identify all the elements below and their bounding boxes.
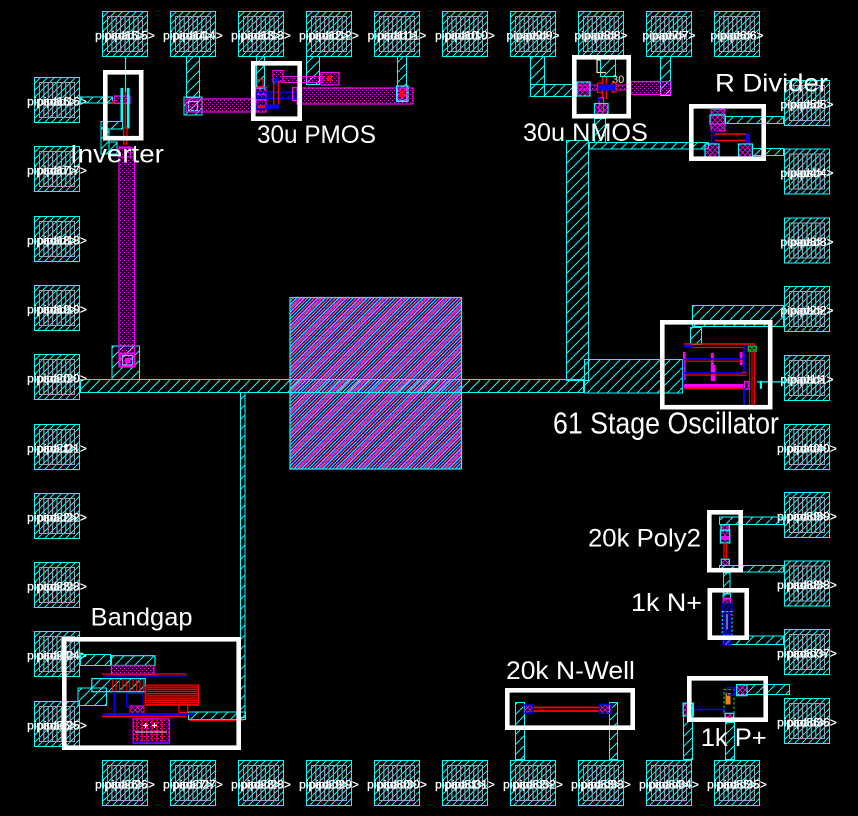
label 20k Poly2 xyxy=(588,525,701,553)
wire 20k Poly2 top to pipad39 xyxy=(720,517,784,525)
svg-text:pipad39>: pipad39> xyxy=(787,510,837,524)
label 1k N+ xyxy=(631,588,702,617)
wire inverter input line from pipad15 xyxy=(125,56,127,92)
svg-text:1k P+: 1k P+ xyxy=(701,724,767,752)
wire vertical to bandgap xyxy=(241,393,246,718)
svg-text:pipad18>: pipad18> xyxy=(37,234,87,248)
resistor 20k N-Well interior xyxy=(524,704,612,713)
svg-text:30: 30 xyxy=(612,74,624,86)
svg-text:pipad26>: pipad26> xyxy=(105,778,155,792)
via contact under pipad14 xyxy=(184,97,202,115)
svg-text:pipad23>: pipad23> xyxy=(37,580,87,594)
pad pipad17 (left column) xyxy=(27,147,87,192)
label 30u PMOS xyxy=(257,122,376,149)
pad pipad21 (left column) xyxy=(27,425,87,470)
pad pipad30 (bottom row) xyxy=(367,761,427,806)
svg-text:pipad29>: pipad29> xyxy=(309,778,359,792)
wire oscillator top to pipad2 xyxy=(693,306,784,327)
svg-text:pipad6>: pipad6> xyxy=(720,29,763,43)
svg-text:20k N-Well: 20k N-Well xyxy=(506,658,635,685)
svg-text:pipad35>: pipad35> xyxy=(717,778,767,792)
svg-text:pipad38>: pipad38> xyxy=(787,578,837,592)
svg-text:pipad21>: pipad21> xyxy=(37,442,87,456)
svg-text:pipad9>: pipad9> xyxy=(516,29,559,43)
svg-text:pipad37>: pipad37> xyxy=(787,647,837,661)
svg-text:pipad4>: pipad4> xyxy=(790,166,833,180)
wire 20k Poly2 to 1k N+ vertical xyxy=(724,573,731,594)
svg-text:1k N+: 1k N+ xyxy=(631,588,702,617)
svg-text:pipad7>: pipad7> xyxy=(652,29,695,43)
pad pipad12 (top row) xyxy=(299,12,359,57)
pad pipad35 (bottom row) xyxy=(707,761,767,806)
label 30u NMOS xyxy=(523,119,648,147)
svg-text:pipad13>: pipad13> xyxy=(241,29,291,43)
wire pipad12 vertical xyxy=(307,57,320,85)
wire main horizontal bus from pipad20 to oscillator xyxy=(81,380,584,393)
wire magenta wide PMOS output east xyxy=(297,88,413,104)
wire pipad13 vertical into PMOS xyxy=(257,57,265,89)
label R Divider xyxy=(715,69,828,98)
wire 1k P+ bottom vertical to pipad35 xyxy=(726,723,735,760)
pad pipad28 (bottom row) xyxy=(231,761,291,806)
svg-text:20k Poly2: 20k Poly2 xyxy=(588,525,701,553)
wire pipad14 vertical xyxy=(187,57,200,98)
bandgap interior xyxy=(92,656,199,743)
resistor box 1k P+ xyxy=(689,678,765,719)
pmos box 30u PMOS xyxy=(253,63,299,118)
wire R Divider bottom to pipad4 xyxy=(753,149,784,156)
svg-text:pipad30>: pipad30> xyxy=(377,778,427,792)
oscillator box 61 Stage xyxy=(662,322,770,407)
svg-text:pipad16>: pipad16> xyxy=(37,95,87,109)
wire R Divider top to pipad5 xyxy=(726,117,784,124)
svg-text:pipad8>: pipad8> xyxy=(584,29,627,43)
label 1k P+ xyxy=(701,724,767,752)
wire wide block into oscillator xyxy=(585,360,683,394)
svg-text:pipad5>: pipad5> xyxy=(790,98,833,112)
resistor box 20k Poly2 xyxy=(709,512,740,570)
svg-text:pipad24>: pipad24> xyxy=(37,649,87,663)
resistor divider interior xyxy=(705,110,753,158)
wire 1k N+ to pipad37 xyxy=(724,636,784,645)
pad pipad36 (right column) xyxy=(777,699,837,744)
wire red trace under bandgap output xyxy=(189,720,243,722)
svg-text:pipad1>: pipad1> xyxy=(790,373,833,387)
svg-text:pipad27>: pipad27> xyxy=(173,778,223,792)
pad pipad13 (top row) xyxy=(231,12,291,57)
svg-text:pipad14>: pipad14> xyxy=(173,29,223,43)
pad pipad32 (bottom row) xyxy=(503,761,563,806)
oscillator U2 interior xyxy=(683,344,790,405)
pad pipad37 (right column) xyxy=(777,630,837,675)
wire magenta pipad14 to PMOS xyxy=(186,99,256,112)
svg-text:pipad22>: pipad22> xyxy=(37,511,87,525)
svg-text:30u NMOS: 30u NMOS xyxy=(523,119,648,147)
label Inverter xyxy=(70,140,164,168)
pad pipad2 (right column) xyxy=(780,287,833,332)
via contact under pipad12 xyxy=(321,73,339,86)
wire pipad25 to bandgap block xyxy=(78,688,107,706)
pad pipad27 (bottom row) xyxy=(163,761,223,806)
svg-text:pipad20>: pipad20> xyxy=(37,372,87,386)
node center metal square xyxy=(290,298,462,470)
wire magenta thin PMOS to pipad12 contact xyxy=(283,77,323,83)
pad pipad7 (top row) xyxy=(642,12,695,57)
svg-text:pipad36>: pipad36> xyxy=(787,716,837,730)
wire pipad7 vertical xyxy=(661,57,671,96)
pad pipad15 (top row) xyxy=(95,12,155,57)
wire long vertical metal2 (NMOS to bus) xyxy=(567,141,589,381)
inverter box U-INV xyxy=(105,72,141,138)
resistor 20k Poly2 interior xyxy=(720,525,729,566)
svg-text:pipad32>: pipad32> xyxy=(513,778,563,792)
wire pipad11 vertical xyxy=(398,57,407,101)
resistor box 20k N-Well xyxy=(507,690,632,727)
pad pipad38 (right column) xyxy=(777,561,837,606)
wire bandgap output east xyxy=(189,712,246,720)
svg-text:pipad3>: pipad3> xyxy=(790,235,833,249)
via contact under pipad11 xyxy=(397,86,409,102)
wire 1k P+ left vertical to pipad34 xyxy=(684,704,693,760)
svg-text:pipad40>: pipad40> xyxy=(787,442,837,456)
svg-text:pipad2>: pipad2> xyxy=(790,304,833,318)
pad pipad16 (left column) xyxy=(27,78,87,123)
pad pipad22 (left column) xyxy=(27,494,87,539)
pad pipad23 (left column) xyxy=(27,563,87,608)
wire 20k Poly2 bottom to pipad38 xyxy=(720,566,784,573)
wire 20k N-Well right vertical to pipad33 xyxy=(610,703,618,760)
svg-text:R Divider: R Divider xyxy=(715,69,828,98)
pad pipad19 (left column) xyxy=(27,286,87,331)
wire 20k N-Well left vertical to pipad32 xyxy=(516,703,525,760)
pad pipad34 (bottom row) xyxy=(639,761,699,806)
svg-text:pipad28>: pipad28> xyxy=(241,778,291,792)
pad pipad14 (top row) xyxy=(163,12,223,57)
wire magenta NMOS output thin xyxy=(577,85,631,90)
pad pipad18 (left column) xyxy=(27,217,87,262)
wire 1k P+ to pipad36 xyxy=(737,685,790,695)
pad pipad24 (left column) xyxy=(27,632,87,677)
wire NMOS bottom vertical xyxy=(595,119,606,143)
svg-text:pipad15>: pipad15> xyxy=(105,29,155,43)
wire magenta vertical inverter output xyxy=(119,148,135,367)
wire pipad8 vertical into NMOS xyxy=(601,57,616,77)
pad pipad8 (top row) xyxy=(574,12,627,57)
svg-text:pipad34>: pipad34> xyxy=(649,778,699,792)
wire pipad24 to bandgap xyxy=(81,655,111,666)
pad pipad29 (bottom row) xyxy=(299,761,359,806)
resistor box R Divider xyxy=(691,106,763,158)
svg-text:61 Stage Oscillator: 61 Stage Oscillator xyxy=(553,407,779,441)
wire magenta NMOS output wide xyxy=(631,82,671,95)
svg-text:pipad31>: pipad31> xyxy=(445,778,495,792)
pad pipad20 (left column) xyxy=(27,355,87,400)
nmos box 30u NMOS xyxy=(574,57,628,116)
pad pipad1 (right column) xyxy=(780,356,833,401)
pad pipad26 (bottom row) xyxy=(95,761,155,806)
pmos Q1 interior xyxy=(256,71,298,113)
svg-text:pipad11>: pipad11> xyxy=(378,29,427,43)
svg-text:30u PMOS: 30u PMOS xyxy=(257,122,376,149)
pad pipad5 (right column) xyxy=(780,81,833,126)
resistor 1k P+ interior xyxy=(683,685,747,719)
resistor 1k N+ interior xyxy=(722,594,732,645)
svg-text:pipad19>: pipad19> xyxy=(37,303,87,317)
svg-text:pipad10>: pipad10> xyxy=(445,29,495,43)
bandgap box xyxy=(64,639,238,747)
pad pipad25 (left column) xyxy=(27,702,87,747)
wire vertical stub into oscillator xyxy=(691,328,702,345)
pad pipad11 (top row) xyxy=(368,12,427,57)
label Bandgap xyxy=(91,604,193,632)
label 20k N-Well xyxy=(506,658,635,685)
wire pipad9 horizontal to NMOS xyxy=(531,85,577,97)
pad pipad6 (top row) xyxy=(710,12,763,57)
via contact magenta-to-metal2 at main bus xyxy=(112,346,140,380)
svg-text:pipad33>: pipad33> xyxy=(581,778,631,792)
label 61 Stage Oscillator xyxy=(553,407,779,441)
pad pipad9 (top row) xyxy=(506,12,559,57)
pad pipad3 (right column) xyxy=(780,218,833,263)
svg-text:Bandgap: Bandgap xyxy=(91,604,193,632)
pad pipad4 (right column) xyxy=(780,149,833,194)
svg-text:pipad12>: pipad12> xyxy=(309,29,359,43)
wire pipad9 vertical xyxy=(531,57,545,97)
resistor box 1k N+ xyxy=(710,590,747,637)
svg-text:pipad25>: pipad25> xyxy=(37,719,87,733)
pad pipad31 (bottom row) xyxy=(435,761,495,806)
pad pipad39 (right column) xyxy=(777,493,837,538)
pad pipad33 (bottom row) xyxy=(571,761,631,806)
wire NMOS to R Divider horizontal xyxy=(590,143,709,150)
wire pipad16 to inverter xyxy=(81,97,113,103)
pad pipad10 (top row) xyxy=(435,12,495,57)
inverter interior xyxy=(101,88,131,157)
pad pipad40 (right column) xyxy=(777,425,837,470)
svg-text:Inverter: Inverter xyxy=(70,140,164,168)
nmos Q2 interior xyxy=(577,60,624,115)
